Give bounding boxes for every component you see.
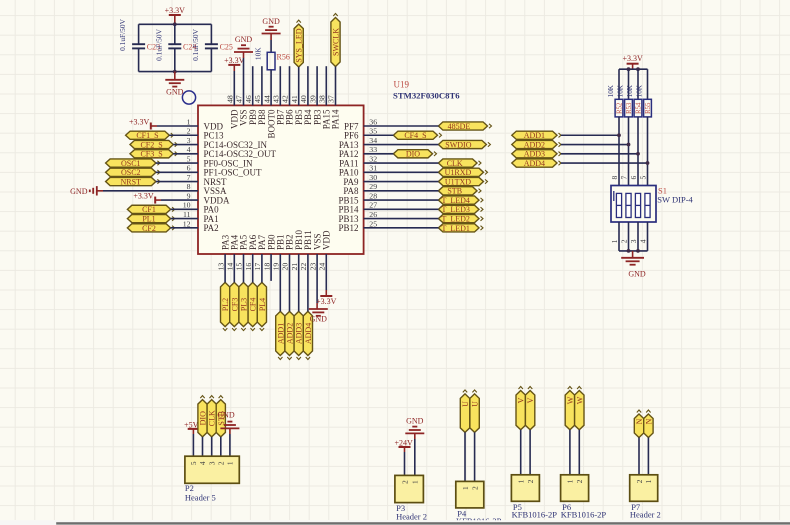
svg-text:ADD1: ADD1 [276, 323, 285, 344]
svg-text:6: 6 [187, 164, 191, 173]
svg-text:OSC2: OSC2 [121, 168, 141, 177]
port V2 (P5) [525, 391, 534, 430]
power +5V (P2) [188, 428, 199, 430]
svg-text:2: 2 [526, 479, 535, 483]
svg-text:46: 46 [244, 95, 253, 103]
svg-text:GND: GND [217, 411, 235, 420]
port SYS_LED [294, 24, 303, 67]
svg-text:ADD4: ADD4 [524, 159, 545, 168]
svg-text:ADD4: ADD4 [304, 323, 313, 344]
svg-text:ADD2: ADD2 [524, 140, 545, 149]
connector P5 body [511, 475, 539, 502]
svg-text:42: 42 [281, 95, 290, 103]
wire dip bottom 4 [647, 222, 649, 251]
svg-text:CLK: CLK [447, 159, 463, 168]
svg-text:10K: 10K [626, 84, 634, 97]
wire pin15 [243, 254, 245, 282]
svg-text:STB: STB [447, 187, 462, 196]
svg-text:1: 1 [461, 486, 470, 490]
svg-text:48: 48 [226, 95, 235, 103]
port CF4_S [393, 131, 437, 139]
svg-text:GND: GND [235, 35, 253, 44]
svg-text:11: 11 [183, 210, 191, 219]
svg-text:KFB1016-2P: KFB1016-2P [512, 510, 558, 520]
svg-text:+3.3V: +3.3V [133, 191, 154, 200]
ground (dip) [632, 251, 634, 258]
connector P4 body [456, 481, 484, 508]
junction [173, 70, 177, 74]
wire dip bottom 3 [637, 222, 639, 251]
svg-text:W: W [575, 396, 584, 404]
mcu U19 body [198, 105, 364, 254]
svg-text:+24V: +24V [394, 438, 413, 447]
wire ADD3 [561, 153, 638, 155]
svg-text:3: 3 [187, 136, 191, 145]
wire col4 [647, 117, 649, 186]
wire P5 pin right [529, 430, 531, 475]
wire pin44 [270, 70, 272, 106]
port CF2_S [130, 140, 173, 148]
wire pin22 [307, 254, 309, 311]
wire pin6 [156, 171, 198, 173]
wire pin21 [298, 254, 300, 311]
svg-text:PB12: PB12 [338, 223, 358, 233]
svg-text:0.1uF/50V: 0.1uF/50V [118, 18, 127, 50]
wire +3.3V rail [619, 68, 648, 70]
svg-text:CF3: CF3 [230, 298, 239, 312]
wire pin28 [364, 199, 439, 201]
wire pin16 [252, 254, 254, 282]
svg-text:22: 22 [299, 263, 308, 271]
svg-text:485DE: 485DE [448, 122, 471, 131]
svg-text:10: 10 [183, 201, 191, 210]
svg-text:1: 1 [566, 479, 575, 483]
svg-text:U: U [471, 401, 480, 407]
power +3.3V (pin 9 VDDA) [154, 197, 156, 204]
svg-text:U1RXD: U1RXD [445, 168, 472, 177]
svg-text:CF4_S: CF4_S [404, 131, 426, 140]
port STB [438, 187, 477, 195]
svg-text:PA2: PA2 [204, 223, 219, 233]
wire pin14 [233, 254, 235, 282]
svg-text:U19: U19 [394, 80, 410, 90]
svg-text:10K: 10K [254, 47, 263, 60]
wire ADD2 [561, 144, 629, 146]
port T_LED2 [438, 215, 479, 223]
svg-text:SYS_LED: SYS_LED [295, 28, 304, 62]
wire pin20 [289, 254, 291, 311]
port CF1 [127, 205, 170, 213]
svg-text:N: N [635, 418, 644, 424]
svg-text:U1TXD: U1TXD [445, 177, 471, 186]
port W2 (P6) [575, 391, 584, 430]
wire P4 pin left [464, 432, 466, 481]
svg-text:3: 3 [208, 461, 216, 465]
ground (cap bank) [174, 72, 176, 80]
svg-text:29: 29 [369, 182, 377, 191]
port OSC1 [106, 159, 156, 167]
power +3.3V (pin 1) [150, 123, 152, 130]
svg-text:34: 34 [369, 136, 377, 145]
svg-text:Header 2: Header 2 [630, 510, 661, 520]
capacitor C23 [138, 24, 140, 44]
wire pin38 [325, 66, 327, 105]
wire pin3 [173, 144, 198, 146]
port U1TXD [438, 177, 483, 185]
wire pin23 [316, 254, 318, 303]
svg-text:44: 44 [262, 95, 271, 103]
svg-text:15: 15 [235, 263, 244, 271]
pin-1 marker [613, 191, 615, 201]
wire pin9 [161, 199, 198, 201]
switch element 4 [645, 193, 650, 217]
svg-text:+3.3V: +3.3V [622, 54, 643, 63]
ground (P2 pin1) [220, 427, 239, 429]
port ADD1 (mcu) [276, 311, 285, 355]
svg-text:+3.3V: +3.3V [129, 117, 150, 126]
port CF1_S [126, 131, 170, 139]
port ADD4 (dip) [512, 159, 557, 167]
svg-text:19: 19 [272, 263, 281, 271]
svg-text:ADD3: ADD3 [295, 323, 304, 344]
svg-text:6: 6 [629, 176, 638, 180]
svg-text:CF3_S: CF3_S [140, 150, 162, 159]
port ADD1 (dip) [512, 131, 557, 139]
svg-text:18: 18 [262, 263, 271, 271]
port W1 (P6) [565, 391, 574, 430]
svg-text:T_LED2: T_LED2 [441, 215, 469, 224]
svg-text:14: 14 [226, 263, 235, 271]
svg-text:7: 7 [187, 173, 191, 182]
port V1 (P5) [516, 391, 525, 430]
port STB (P2) [216, 400, 225, 437]
wire pin24 [325, 254, 327, 290]
wire P5 pin left [520, 430, 522, 475]
svg-text:+3.3V: +3.3V [224, 56, 245, 65]
wire pin17 [261, 254, 263, 282]
wire ADD4 [561, 162, 648, 164]
svg-text:ADD3: ADD3 [524, 150, 545, 159]
wire pin1 [157, 125, 198, 127]
wire pin18 stub [270, 254, 272, 281]
svg-text:10K: 10K [636, 84, 644, 97]
wire pin2 [169, 134, 198, 136]
svg-text:28: 28 [369, 191, 377, 200]
port SWCLK [331, 18, 340, 67]
ground (pin 47 VSS) [234, 51, 253, 53]
svg-text:+3.3V: +3.3V [316, 297, 337, 306]
svg-text:23: 23 [308, 263, 317, 271]
svg-text:N: N [644, 418, 653, 424]
svg-text:10K: 10K [617, 84, 625, 97]
port DIO (P2) [198, 400, 207, 437]
power +3.3V (pin 48 VDD) [228, 64, 240, 66]
svg-text:36: 36 [369, 117, 377, 126]
wire col2 [628, 117, 630, 186]
svg-text:5: 5 [190, 461, 198, 465]
wire pin8 [103, 190, 198, 192]
svg-text:7: 7 [620, 176, 629, 180]
wire pin46 [252, 66, 254, 105]
svg-text:KFB1016-2P: KFB1016-2P [561, 510, 607, 520]
port U1 (P4) [460, 394, 469, 433]
port U1RXD [438, 168, 483, 176]
junction [627, 143, 631, 147]
svg-text:1: 1 [644, 479, 653, 483]
wire col3 [637, 117, 639, 186]
svg-text:CF1: CF1 [142, 205, 156, 214]
svg-text:GND: GND [262, 17, 280, 26]
svg-text:T_LED4: T_LED4 [441, 196, 469, 205]
svg-text:43: 43 [272, 95, 281, 103]
wire pin40 [307, 66, 309, 105]
svg-text:27: 27 [369, 201, 377, 210]
capacitor C24 [174, 24, 176, 44]
svg-text:SWCLK: SWCLK [332, 28, 341, 56]
wire pin36 [364, 125, 439, 127]
wire P7 pin right [647, 438, 649, 475]
sheet bottom edge [0, 520, 790, 525]
svg-text:R53: R53 [626, 102, 633, 114]
port OSC2 [106, 168, 156, 176]
svg-text:47: 47 [235, 95, 244, 103]
wire pin39 [316, 66, 318, 105]
svg-text:VDD: VDD [322, 230, 332, 250]
wire pin31 [364, 171, 439, 173]
wire pin37 [335, 67, 337, 106]
wire P6 pin left [569, 430, 571, 475]
resistor R52 [618, 69, 620, 99]
svg-text:SW DIP-4: SW DIP-4 [657, 194, 693, 204]
svg-text:32: 32 [369, 154, 377, 163]
power +24V (P3) [399, 446, 411, 448]
resistor R55 [647, 69, 649, 99]
svg-text:2: 2 [187, 127, 191, 136]
svg-text:Header 2: Header 2 [396, 511, 427, 521]
svg-text:1: 1 [187, 117, 191, 126]
svg-text:P2: P2 [185, 483, 194, 493]
svg-text:2: 2 [620, 239, 629, 243]
power +3.3V (pull-up) [627, 63, 639, 65]
svg-text:30: 30 [369, 173, 377, 182]
svg-text:31: 31 [369, 164, 377, 173]
port PL3 [239, 282, 248, 326]
wire pin27 [364, 208, 439, 210]
junction [173, 22, 177, 26]
svg-text:17: 17 [253, 263, 262, 271]
wire P7 pin left [638, 438, 640, 475]
svg-text:GND: GND [406, 416, 424, 425]
wire pin41 [298, 67, 300, 105]
svg-text:C25: C25 [220, 42, 233, 51]
svg-text:20: 20 [281, 263, 290, 271]
svg-text:9: 9 [187, 191, 191, 200]
svg-text:21: 21 [290, 263, 299, 271]
svg-text:35: 35 [369, 127, 377, 136]
svg-text:V: V [526, 397, 535, 403]
wire top rail [139, 23, 212, 25]
svg-text:13: 13 [216, 263, 225, 271]
wire P6 pin right [578, 430, 580, 475]
svg-text:CF4: CF4 [249, 298, 258, 312]
svg-text:+5V: +5V [184, 420, 199, 429]
port T_LED4 [438, 196, 479, 204]
wire pin11 [171, 218, 198, 220]
svg-text:PL4: PL4 [258, 298, 267, 311]
wire pin10 [171, 208, 198, 210]
port ADD3 (mcu) [294, 311, 303, 355]
svg-text:Header 5: Header 5 [185, 493, 216, 503]
port CLK [438, 159, 477, 167]
svg-text:R54: R54 [636, 102, 643, 114]
svg-text:4: 4 [639, 239, 648, 243]
svg-text:8: 8 [187, 182, 191, 191]
svg-text:V: V [517, 397, 526, 403]
svg-text:SWDIO: SWDIO [445, 140, 471, 149]
switch element 3 [635, 193, 640, 217]
svg-text:1: 1 [411, 480, 420, 484]
svg-text:PL1: PL1 [142, 215, 155, 224]
wire pin5 [156, 162, 198, 164]
port PL4 [257, 282, 266, 326]
svg-text:CLK: CLK [208, 410, 217, 426]
svg-text:10K: 10K [607, 84, 615, 97]
svg-text:1: 1 [227, 461, 235, 465]
svg-text:37: 37 [327, 95, 336, 103]
svg-text:W: W [566, 396, 575, 404]
svg-text:T_LED3: T_LED3 [441, 205, 469, 214]
wire pin29 [364, 190, 439, 192]
resistor R56 [267, 52, 275, 70]
port N1 (P7) [634, 414, 643, 438]
svg-text:CF2_S: CF2_S [140, 140, 162, 149]
blue circle marker [182, 91, 195, 104]
svg-text:38: 38 [318, 95, 327, 103]
port ADD4 (mcu) [303, 311, 312, 355]
junction [636, 152, 640, 156]
svg-text:39: 39 [308, 95, 317, 103]
wire pin26 [364, 218, 439, 220]
port T_LED1 [438, 224, 479, 232]
svg-text:0.1uF/50V: 0.1uF/50V [154, 28, 163, 60]
port ADD3 (dip) [512, 150, 557, 158]
svg-text:5: 5 [639, 176, 648, 180]
junction [646, 161, 650, 165]
wire pin25 [364, 227, 439, 229]
wire pin12 [171, 227, 198, 229]
svg-text:PL3: PL3 [240, 298, 249, 311]
svg-text:STM32F030C8T6: STM32F030C8T6 [393, 90, 460, 100]
port N2 (P7) [644, 414, 653, 438]
wire P3 pin2 [404, 452, 406, 475]
wire gnd rail [619, 250, 648, 252]
port T_LED3 [438, 205, 479, 213]
svg-text:12: 12 [183, 219, 191, 228]
svg-text:2: 2 [400, 480, 409, 484]
svg-text:R52: R52 [617, 102, 624, 114]
port PL2 [221, 282, 230, 326]
wire R56 top [270, 40, 272, 52]
svg-text:DIO: DIO [406, 150, 420, 159]
connector P2 body [185, 456, 239, 483]
port CF3 [230, 282, 239, 326]
resistor R53 [628, 69, 630, 99]
wire col1 [618, 117, 620, 186]
svg-text:8: 8 [610, 176, 619, 180]
svg-text:5: 5 [187, 154, 191, 163]
svg-text:ADD2: ADD2 [286, 323, 295, 344]
port CF3_S [130, 150, 173, 158]
port ADD2 (mcu) [285, 311, 294, 355]
svg-text:GND: GND [310, 315, 328, 324]
svg-text:R55: R55 [645, 102, 652, 114]
wire P2 pin3 [211, 437, 213, 456]
svg-text:45: 45 [253, 95, 262, 103]
svg-text:R56: R56 [277, 52, 290, 61]
power +3.3V (cap bank) [169, 14, 181, 16]
switch element 1 [616, 193, 621, 217]
wire pin32 [364, 162, 439, 164]
wire P3 pin1 [414, 439, 416, 475]
wire dip bottom 1 [618, 222, 620, 251]
svg-text:3: 3 [629, 239, 638, 243]
svg-text:24: 24 [318, 263, 327, 271]
svg-text:4: 4 [199, 461, 207, 465]
port NRST [106, 177, 156, 185]
port SWDIO [438, 140, 486, 148]
svg-text:GND: GND [628, 270, 646, 279]
resistor R54 [637, 69, 639, 99]
svg-text:ADD1: ADD1 [524, 131, 545, 140]
power +3.3V (pin 24 VDD) [325, 290, 327, 296]
svg-text:2: 2 [575, 479, 584, 483]
wire bottom rail [139, 71, 212, 73]
wire P2 pin1 [229, 434, 231, 456]
wire ADD1 [561, 134, 619, 136]
ground (BOOT0 pulldown) [262, 33, 281, 35]
wire pin4 [173, 153, 198, 155]
wire pin47 [243, 58, 245, 105]
svg-text:T_LED1: T_LED1 [441, 224, 469, 233]
port ADD2 (dip) [512, 140, 557, 148]
svg-text:33: 33 [369, 145, 377, 154]
port CLK (P2) [207, 400, 216, 437]
wire pin13 [224, 254, 226, 282]
svg-text:1: 1 [517, 479, 526, 483]
ground (pin 23 VSS) [316, 303, 318, 309]
connector P3 body [395, 475, 424, 502]
wire pin48 [233, 71, 235, 105]
svg-text:CF1_S: CF1_S [136, 131, 158, 140]
wire pin45 [261, 66, 263, 105]
wire pin35 [364, 134, 394, 136]
switch S1 body [611, 186, 656, 223]
port U2 (P4) [470, 394, 479, 433]
wire P2 pin5 [192, 434, 194, 456]
svg-text:25: 25 [369, 219, 377, 228]
ground (P3) [405, 432, 424, 434]
capacitor C25 [210, 24, 212, 44]
svg-text:PL2: PL2 [221, 298, 230, 311]
svg-text:26: 26 [369, 210, 377, 219]
svg-text:U: U [461, 401, 470, 407]
port CF4 [248, 282, 257, 326]
wire P4 pin right [474, 432, 476, 481]
port PL1 [127, 215, 170, 223]
wire P2 pin2 [220, 437, 222, 456]
wire pin19 [279, 254, 281, 311]
junction [617, 133, 621, 137]
